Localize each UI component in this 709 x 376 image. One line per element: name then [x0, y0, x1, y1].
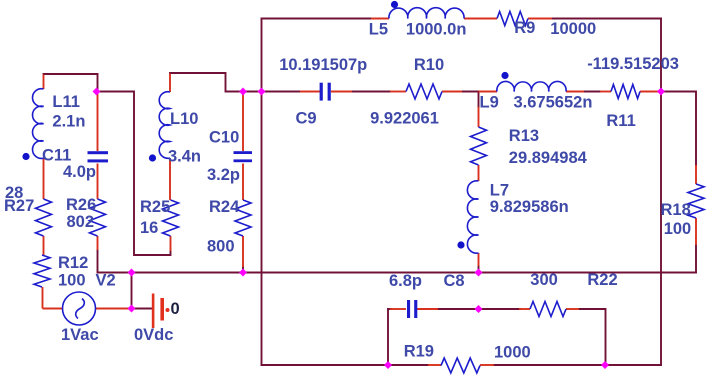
pin lead: L11 bottom / R27 top — [43, 158, 45, 199]
junction: C8 row / mid drop — [475, 305, 483, 313]
pin-1 dot L11 — [22, 153, 29, 160]
svg-text:300: 300 — [530, 271, 558, 289]
svg-text:V2: V2 — [96, 272, 116, 290]
svg-text:9.922061: 9.922061 — [370, 109, 439, 127]
pin lead: R22 left — [519, 308, 530, 310]
capacitor C10 — [234, 151, 253, 162]
svg-text:C11: C11 — [42, 147, 71, 165]
pin-1 dot L7 — [457, 241, 464, 248]
pin lead: L10 top — [169, 74, 171, 93]
svg-text:C9: C9 — [296, 109, 317, 127]
voltage source V2 circle — [63, 292, 96, 325]
wire: outer top bus — [262, 18, 372, 20]
svg-text:R27: R27 — [4, 197, 34, 215]
0Vdc source minus dot — [166, 308, 170, 312]
svg-text:R12: R12 — [58, 254, 88, 272]
wire: R11 junction over to R18 top — [661, 92, 696, 166]
pin lead: C9 left — [300, 91, 320, 93]
wire: junction drop to V2 row — [131, 273, 133, 309]
svg-text:L9: L9 — [480, 94, 499, 112]
wire: R10 to mid node — [462, 91, 479, 93]
pin lead: R25 bottom — [170, 236, 172, 251]
svg-text:L7: L7 — [490, 182, 509, 200]
junction: mid bus / V2 drop top — [128, 269, 136, 277]
wire: block1 right vertical lower — [97, 250, 99, 273]
inductor L11 — [33, 89, 44, 159]
wire: top bus right of R9 — [552, 18, 661, 20]
V2 sine squiggle — [76, 299, 85, 319]
wire: C8 left drop — [387, 309, 389, 365]
resistor R12 — [34, 255, 50, 287]
svg-text:-119.515203: -119.515203 — [587, 55, 679, 73]
svg-text:16: 16 — [140, 219, 158, 237]
wire: R11 to outer right — [658, 91, 661, 93]
svg-text:29.894984: 29.894984 — [509, 149, 588, 167]
junction: block1 top right — [93, 88, 101, 96]
pin lead: C8 left — [390, 308, 406, 310]
svg-text:R22: R22 — [587, 271, 617, 289]
svg-text:100: 100 — [664, 220, 692, 238]
0Vdc source symbol short bar — [160, 298, 164, 321]
wire: outer bottom bus left — [262, 364, 429, 366]
svg-text:R13: R13 — [509, 127, 539, 145]
pin-1 dot L5 — [391, 1, 398, 8]
svg-text:R9: R9 — [514, 19, 535, 37]
pin lead: R13 top — [478, 107, 480, 127]
resistor R27 — [36, 199, 52, 236]
svg-text:10.191507p: 10.191507p — [279, 56, 367, 74]
resistor R13 — [471, 127, 487, 165]
svg-text:R10: R10 — [414, 56, 444, 74]
svg-text:L11: L11 — [52, 93, 80, 111]
junction: C8 bottom bus — [384, 361, 392, 369]
pin lead: C11 bottom / R26 top — [97, 164, 99, 200]
pin-1 dot L10 — [149, 154, 156, 161]
svg-text:R25: R25 — [140, 198, 170, 216]
pin lead: L5 right / R9 left — [464, 18, 497, 20]
wire: block1 right vertical upper — [97, 74, 99, 92]
svg-text:2.1n: 2.1n — [52, 113, 85, 131]
junction: V2 right — [128, 305, 136, 313]
pin lead: L9 left — [479, 91, 498, 93]
svg-text:C10: C10 — [209, 129, 239, 147]
wire: C8 to R22 node — [438, 308, 478, 310]
pin-1 dot L9 — [501, 72, 508, 79]
inductor L7 — [467, 181, 478, 253]
junction: R11 / outer right — [657, 88, 665, 96]
svg-text:6.8p: 6.8p — [389, 272, 422, 290]
pin lead: L11 top — [43, 75, 45, 90]
resistor R10 — [406, 84, 442, 99]
junction: R22 bottom bus — [601, 361, 609, 369]
junction: R24 bottom / mid bus — [239, 269, 247, 277]
pin lead: R18 top — [695, 165, 697, 184]
svg-text:800: 800 — [207, 238, 235, 256]
pin lead: R10 right — [442, 91, 462, 93]
wire: long middle bus — [98, 272, 697, 274]
wire: C9 row left — [262, 91, 301, 93]
inductor L10 — [159, 92, 170, 159]
svg-text:0Vdc: 0Vdc — [134, 326, 173, 344]
pin lead: R11 right — [640, 91, 658, 93]
capacitor C8 — [407, 300, 417, 318]
wire: R18 bottom to mid bus corner — [695, 245, 697, 273]
svg-text:R19: R19 — [404, 343, 434, 361]
pin lead: R24 bottom — [242, 236, 244, 267]
svg-text:3.4n: 3.4n — [168, 148, 201, 166]
pin lead: R18 bottom — [695, 218, 697, 245]
pin lead: R9 right — [528, 18, 552, 20]
pin lead: C10 bottom / R24 top — [242, 164, 244, 201]
pin lead: L5 left — [371, 18, 389, 20]
junction: C10 branch top — [239, 88, 247, 96]
wire: outer right vertical — [660, 19, 662, 366]
pin lead: L7 bottom — [478, 253, 480, 266]
wire: block1 top — [44, 73, 98, 75]
pin lead: C8 right — [417, 308, 438, 310]
svg-text:802: 802 — [67, 213, 95, 231]
resistor R18 — [688, 184, 704, 218]
capacitor C11 — [88, 151, 109, 162]
svg-text:R11: R11 — [606, 112, 635, 130]
wire: outer left vertical — [261, 19, 263, 366]
resistor R25 — [163, 200, 179, 236]
pin lead: L9 right — [566, 91, 584, 93]
svg-text:100: 100 — [58, 272, 86, 290]
wire: C10 branch bottom stub — [242, 266, 244, 273]
resistor R9 — [497, 12, 528, 26]
svg-text:R18: R18 — [661, 201, 691, 219]
junction: outer left / C9 row — [258, 88, 266, 96]
resistor R11 — [611, 85, 640, 99]
inductor L5 — [389, 8, 464, 19]
svg-text:1Vac: 1Vac — [61, 326, 99, 344]
resistor R24 — [235, 200, 251, 236]
wire: L7 bottom stub — [478, 266, 480, 273]
wire: R13 branch top stub — [478, 92, 480, 108]
pin lead: R19 right — [480, 364, 494, 366]
pin lead: R10 left — [390, 91, 406, 93]
capacitor C9 — [320, 83, 331, 101]
pin lead: R12 bottom to V2 — [43, 287, 63, 309]
wire: R22 node to R22 — [478, 308, 521, 310]
svg-text:0: 0 — [171, 300, 180, 318]
wire: 0Vdc lead — [132, 308, 153, 310]
pin lead: R22 right — [566, 308, 579, 310]
svg-text:9.829586n: 9.829586n — [490, 198, 569, 216]
svg-text:L5: L5 — [369, 20, 388, 38]
pin lead: C11 top — [97, 92, 99, 152]
resistor R19 — [441, 358, 480, 373]
resistor R22 — [530, 302, 566, 317]
0Vdc source symbol long bar — [152, 294, 155, 329]
pin lead: R11 left — [600, 91, 611, 93]
pin lead: C10 top — [242, 92, 244, 152]
svg-text:3.2p: 3.2p — [207, 166, 240, 184]
inductor L9 — [497, 81, 566, 91]
junction: L7 bottom / mid bus — [475, 269, 483, 277]
pin lead: V2 right — [96, 308, 132, 310]
svg-text:R24: R24 — [209, 198, 240, 216]
wire: C8 corner stub — [388, 308, 391, 310]
wire: block2 top step — [170, 73, 262, 92]
svg-text:C8: C8 — [444, 272, 465, 290]
wire: L9 to R11 — [584, 91, 600, 93]
wire: outer bottom bus right — [494, 364, 661, 366]
pin lead: R13 bottom / L7 top — [478, 165, 480, 181]
pin lead: C9 right — [331, 91, 352, 93]
svg-text:R26: R26 — [66, 196, 96, 214]
pin lead: R26 bottom — [97, 236, 99, 250]
wire: tap block1 to R25 branch — [98, 92, 171, 256]
svg-text:1000: 1000 — [494, 344, 531, 362]
wire: R22 to corner drop — [579, 309, 606, 365]
svg-text:3.675652n: 3.675652n — [514, 94, 593, 112]
pin lead: R27 bottom / R12 top — [43, 236, 45, 255]
pin lead: L10 bottom / R25 top — [169, 158, 171, 200]
svg-text:1000.0n: 1000.0n — [406, 20, 467, 38]
svg-text:L10: L10 — [170, 110, 198, 128]
svg-text:4.0p: 4.0p — [63, 163, 96, 181]
resistor R26 — [90, 199, 106, 236]
wire: C9 to R10 — [352, 91, 390, 93]
svg-text:10000: 10000 — [550, 20, 596, 38]
pin lead: R19 left — [428, 364, 441, 366]
